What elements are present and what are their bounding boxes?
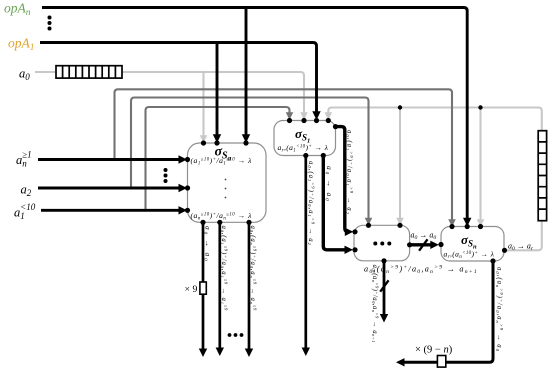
svg-text:a0,(an>9)+/a0,an>9 → an+1: a0,(an>9)+/a0,an>9 → an+1 (371, 265, 380, 343)
repeat box x(9-n) on G (437, 356, 445, 368)
arrowhead opA_n branch into sigma_S_a (242, 134, 250, 143)
state box sigma_S_n (441, 227, 504, 262)
svg-text:× 9: × 9 (185, 284, 198, 295)
arrowhead v1 down (199, 349, 207, 358)
wire output v1 from sigma_S_a bottom (202, 222, 205, 349)
svg-text:a0 → a0: a0 → a0 (324, 166, 335, 202)
wire tap from a_1 line up and right into sigma_S_1 top (146, 107, 290, 210)
arrowhead feedback into sigma_S_n (477, 219, 485, 227)
dots between opA lines (48, 16, 52, 31)
comb symbol on a_0 line (56, 66, 122, 78)
wire opA_1 horizontal with corner down into sigma_S_1 (40, 43, 317, 114)
junction dot on feedback at x=400 (398, 105, 402, 109)
arrowhead opA_1 into sigma_S_1 (312, 111, 320, 120)
arrowhead feedback into sigma_S_1 (325, 112, 333, 120)
arrowhead C right into dots-box (345, 228, 354, 236)
DARKGRAY-WIRES (115, 89, 453, 221)
wire tap from a_n line up and right into sigma_S_n top (115, 89, 453, 221)
arrowhead tap into sigma_S_n (448, 219, 456, 227)
wire output v3 from sigma_S_a bottom (248, 222, 251, 349)
state box sigma_S_a (188, 143, 267, 222)
junction dot on feedback at x=480.5 (478, 105, 482, 109)
wire feedback a_0->a_r from sigma_S_n right, up right side, left along y=107.5, down into sigma_S1 (328, 108, 542, 251)
svg-text:a0,(a1>9)+/a0,a1>9 → a2: a0,(a1>9)+/a0,a1>9 → a2 (345, 130, 354, 215)
dots box (ellipsis state box) (354, 225, 410, 260)
slash tick on E line (380, 280, 388, 291)
arrowhead a_0 into sigma_S_a (200, 135, 208, 143)
wire output G from sigma_S_n bottom, down then left (404, 261, 494, 362)
wire a_0 branch down into sigma_S_a (202, 73, 204, 138)
wire input a_n>=1 (38, 158, 180, 161)
arrowhead input a_2 (179, 184, 188, 192)
svg-text:× (9 − n): × (9 − n) (415, 345, 453, 356)
junction dots sigma_S_n (438, 224, 507, 264)
wire feedback branch down into dots-box (399, 108, 401, 220)
wire input a_2 (38, 187, 180, 190)
dots between input lines (164, 168, 168, 183)
junction dots sigma_S_a (185, 140, 252, 225)
svg-text:a0,(an>9)+/a0,an>9 → a0: a0,(an>9)+/a0,an>9 → a0 (495, 267, 504, 352)
wire output D from dots-box right into sigma_S_n left (410, 243, 431, 246)
arrowhead opA_n into sigma_S_n (463, 218, 471, 227)
wire opA_n horizontal with corner down into sigma_S_n (42, 8, 467, 221)
state box sigma_S_1 (274, 121, 336, 156)
arrowhead tap into sigma_S_1 (286, 112, 294, 120)
LIGHTGRAY-WIRES (35, 72, 542, 250)
wire output A from sigma_S_1 bottom (304, 156, 307, 349)
arrowhead opA_1 branch into sigma_S_a (213, 134, 221, 143)
wire opA_n branch down into sigma_S_a (245, 8, 248, 137)
wire tap from a_2 line up and right into dots-box top (131, 98, 369, 220)
arrowhead input a_1<10 (179, 206, 188, 214)
svg-text:a0,(a1>9)+/a0,a1>9 → a2: a0,(a1>9)+/a0,a1>9 → a2 (307, 161, 316, 246)
arrowhead B right into dots-box (345, 246, 354, 254)
arrowhead v2 down (216, 348, 224, 357)
arrowhead tap into dots-box (365, 218, 373, 226)
wire a_0 horizontal with corner down into sigma_S1 (35, 72, 304, 114)
wire input a_1<10 (41, 209, 180, 212)
wire output E below dots-box (383, 261, 386, 315)
repeat box x9 on v1 (200, 282, 206, 294)
arrowhead G left (396, 358, 405, 366)
junction dots sigma_S_1 (287, 118, 338, 158)
arrowhead D right into sigma_S_n (430, 241, 439, 249)
wire output C from sigma_S_1 right into dots-box left (336, 127, 349, 232)
wire output v2 from sigma_S_a bottom (218, 222, 221, 348)
slash tick on D arrow (419, 239, 427, 250)
BLACK-WIRES (38, 8, 467, 221)
wire output B from sigma_S_1 bottom into dots-box left (323, 156, 345, 250)
arrowhead v3 down (245, 349, 253, 358)
wire opA_1 branch down into sigma_S_a (216, 43, 219, 137)
arrowhead a_0 into sigma_S_1 (300, 112, 308, 120)
svg-text:a0,(a1≤9)+/a0,a1≤9 → a1≤9: a0,(a1≤9)+/a0,a1≤9 → a1≤9 (220, 226, 229, 312)
dots under sigma_S_a outputs (228, 333, 244, 337)
arrowhead A down (302, 348, 310, 357)
arrowhead E down (380, 314, 388, 323)
junction dots dots-box (352, 223, 412, 264)
svg-text:a0 → a0: a0 → a0 (202, 226, 213, 262)
arrowhead input a_n>=1 (179, 155, 188, 163)
arrowhead feedback into dots-box (396, 218, 404, 226)
wire feedback branch down into sigma_S_n (479, 108, 481, 222)
svg-text:a0,(an≤9)+/a0,an≤9 → an≤9: a0,(an≤9)+/a0,an≤9 → an≤9 (249, 226, 258, 312)
ladder symbol on feedback right side (538, 131, 546, 221)
OUTPUTS (203, 127, 431, 350)
